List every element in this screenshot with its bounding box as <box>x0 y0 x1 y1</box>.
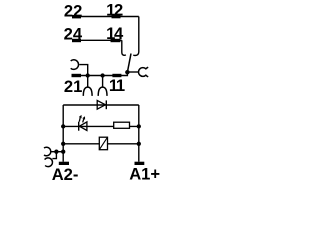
node dot left rail / coil wire <box>61 142 65 146</box>
wire 12 vertical with NC hook <box>133 17 139 56</box>
svg-text:24: 24 <box>64 25 83 44</box>
stub to arch 1 <box>87 76 89 88</box>
wire common to socket <box>127 71 139 73</box>
stub to arch 2 <box>102 76 104 88</box>
svg-text:21: 21 <box>64 77 82 96</box>
test socket arch 2 under wire <box>98 87 107 96</box>
socket arc right of common <box>138 67 148 77</box>
coil box top wire <box>63 104 139 106</box>
svg-text:A2-: A2- <box>52 165 79 180</box>
suppressor diode triangle <box>97 100 105 109</box>
node dot A2 rail <box>61 150 65 154</box>
resistor <box>114 122 130 128</box>
wire from socket to node on wire3 <box>79 65 87 76</box>
node dot wire3-arch1 <box>86 73 90 77</box>
svg-text:22: 22 <box>64 1 82 20</box>
coil box right rail <box>138 105 140 162</box>
LED arrow 2 <box>83 119 84 122</box>
svg-text:12: 12 <box>106 0 123 19</box>
wire 22-12 horizontal <box>74 16 139 18</box>
node dot A2 branch <box>54 150 58 154</box>
node dot right rail / resistor wire <box>137 124 141 128</box>
node dot wire3-arch2 <box>100 73 104 77</box>
A2 socket arc upper <box>44 147 51 156</box>
svg-text:14: 14 <box>106 24 124 43</box>
node dot left rail / LED wire <box>61 124 65 128</box>
coil box left rail <box>62 105 64 162</box>
A1 terminal bar <box>135 162 145 165</box>
svg-text:A1+: A1+ <box>129 165 160 180</box>
node dot right rail / coil wire <box>137 142 141 146</box>
A2 branch stub <box>52 152 56 159</box>
terminal bar 21 <box>72 74 82 77</box>
LED triangle <box>79 122 87 131</box>
suppressor diode cathode bar <box>105 100 107 109</box>
LED wire <box>63 125 139 127</box>
A2 wire to socket <box>51 151 63 153</box>
A2 socket arc lower <box>45 158 53 167</box>
test socket arch 1 under wire <box>83 87 92 96</box>
common node dot <box>125 70 129 75</box>
terminal bar 14 <box>111 39 121 42</box>
wire 14 vertical with NO hook <box>122 40 126 55</box>
terminal bar 11 <box>112 74 121 77</box>
terminal bar 12 <box>112 15 121 18</box>
terminal bar 22 <box>72 15 81 18</box>
changeover arm <box>127 54 131 73</box>
svg-text:11: 11 <box>109 76 125 95</box>
relay coil box with diagonal <box>99 137 107 150</box>
wire 24-14 horizontal <box>74 39 122 41</box>
A2 terminal bar <box>59 162 69 165</box>
LED cathode bar <box>78 122 80 131</box>
wire 21-11 horizontal <box>74 72 127 75</box>
terminal bar 24 <box>72 39 81 42</box>
LED arrow 1 <box>78 118 81 122</box>
coil wire <box>63 143 139 145</box>
socket arc above 21 <box>71 60 79 70</box>
